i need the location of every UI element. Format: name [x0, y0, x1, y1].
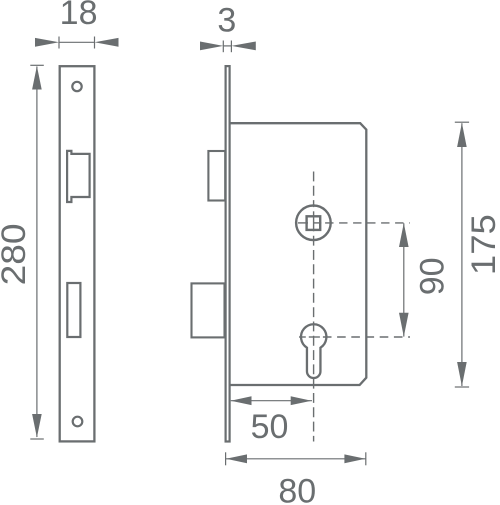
spindle hub circle — [296, 206, 331, 241]
hub horizontal centerline (dashed) — [298, 222, 308, 224]
svg-text:3: 3 — [217, 2, 236, 40]
dim 18 right arrow — [95, 38, 119, 47]
dim 80 line — [226, 458, 366, 460]
dim 80 left tick — [225, 452, 227, 465]
dim 3 right arrow — [231, 42, 255, 51]
dim 175 bottom tick — [455, 386, 469, 388]
dim 175 bottom arrow — [457, 362, 467, 386]
dim 280 top tick — [30, 64, 44, 66]
cylinder horizontal centerline (dashed) — [299, 336, 306, 338]
svg-text:50: 50 — [251, 408, 289, 446]
dim 175 line — [461, 123, 463, 386]
dim 90 line — [403, 223, 405, 336]
svg-text:280: 280 — [0, 223, 33, 285]
faceplate front view outline — [60, 66, 95, 441]
dim 80 right tick — [365, 452, 367, 465]
deadbolt block side view — [192, 283, 225, 337]
faceplate top screw hole — [72, 82, 81, 91]
dim 280 bottom arrow — [32, 414, 42, 438]
dim 3 left tick — [222, 41, 224, 53]
dim 3 left arrow — [200, 42, 223, 51]
dim 280 top arrow — [32, 66, 42, 90]
dim 18 left arrow — [35, 38, 59, 47]
dim 3 line — [223, 45, 231, 47]
lock plate edge view — [226, 66, 230, 441]
dim 3 right tick — [230, 41, 232, 53]
svg-text:90: 90 — [414, 257, 452, 295]
euro cylinder hole — [301, 324, 326, 378]
lock body outline — [230, 123, 366, 385]
dim 175 top tick — [455, 121, 469, 123]
faceplate bottom screw hole — [73, 417, 83, 427]
svg-text:80: 80 — [278, 472, 316, 505]
dim 18 left tick — [58, 37, 60, 49]
dim 50 right arrow — [291, 396, 312, 405]
spindle square hole — [307, 216, 321, 230]
dim 280 bottom tick — [30, 438, 44, 440]
dim 175 top arrow — [457, 123, 467, 147]
faceplate latch cutout — [67, 151, 90, 202]
dim 80 left arrow — [226, 454, 247, 463]
svg-text:175: 175 — [465, 214, 500, 275]
vertical centerline (dashed) — [313, 172, 315, 208]
dim 18 right tick — [94, 37, 96, 49]
svg-text:18: 18 — [60, 0, 98, 32]
dim 90 bottom arrow — [399, 313, 409, 337]
dim 80 right arrow — [344, 454, 365, 463]
dim 50 line — [231, 400, 312, 402]
dim 90 top arrow — [399, 223, 409, 247]
faceplate deadbolt cutout — [67, 283, 80, 337]
dim 280 line — [36, 67, 38, 438]
latch block side view — [208, 151, 225, 201]
dim 50 left arrow — [231, 396, 252, 405]
dim 18 line — [59, 41, 95, 43]
